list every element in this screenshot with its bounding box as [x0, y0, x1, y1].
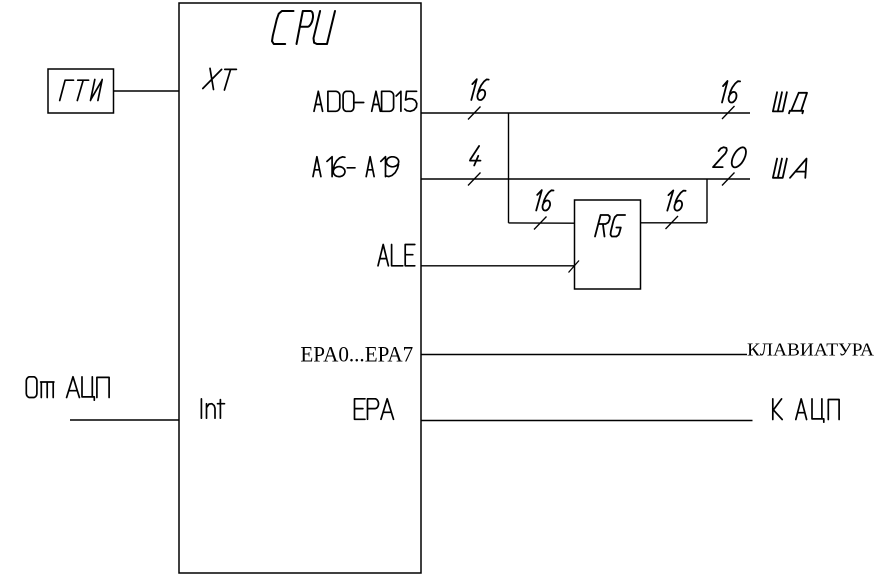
wire EPA0-EPA7 keyboard [421, 354, 747, 356]
bus slash ShD right [722, 106, 735, 119]
svg-text:КЛАВИАТУРА: КЛАВИАТУРА [747, 340, 874, 360]
wire RG input horizontal [509, 222, 575, 224]
wire ALE [421, 265, 575, 267]
wire branch vertical to RG [508, 113, 510, 223]
wire EPA to ADC [421, 420, 753, 422]
label CPU [272, 11, 335, 44]
bus width 16 AD bus [471, 79, 488, 100]
bus width 16 RG input [536, 190, 553, 210]
label Ot ACP (from ADC) [26, 377, 109, 400]
label GTI clock generator [60, 80, 102, 101]
pin EPA [355, 399, 394, 420]
register RG box [575, 200, 641, 289]
label ShA address bus [773, 159, 807, 178]
wire AD0-AD15 data bus [421, 112, 750, 114]
wire Int input [70, 419, 179, 421]
bus width 4 [470, 146, 481, 166]
pin ALE [378, 245, 415, 266]
bus slash ShA right [722, 173, 735, 186]
CPU block U1 [179, 3, 421, 573]
wire A16-A19 address bus [421, 178, 750, 180]
wire XT clock [114, 90, 180, 92]
label K ACP (to ADC) [773, 399, 839, 422]
label ShD data bus [773, 92, 807, 113]
bus width 16 ShD [722, 81, 740, 103]
bus slash ALE at RG [569, 261, 580, 273]
svg-text:EPA0...EPA7: EPA0...EPA7 [300, 342, 413, 367]
clock generator G1 box [48, 69, 114, 113]
bus slash RG output [666, 216, 679, 229]
wire RG output horizontal [641, 222, 708, 224]
bus slash AD0-AD15 [468, 107, 481, 120]
label RG register [595, 215, 625, 237]
bus slash RG input [534, 217, 547, 230]
bus width 20 ShA [713, 147, 746, 167]
pin A16-A19 [313, 157, 399, 177]
pin AD0-AD15 [314, 91, 417, 111]
wire RG output vertical to address bus [706, 179, 708, 223]
pin Int [201, 399, 224, 418]
bus slash A16-A19 [468, 173, 481, 186]
bus width 16 RG output [667, 190, 685, 210]
pin XT [203, 68, 237, 90]
